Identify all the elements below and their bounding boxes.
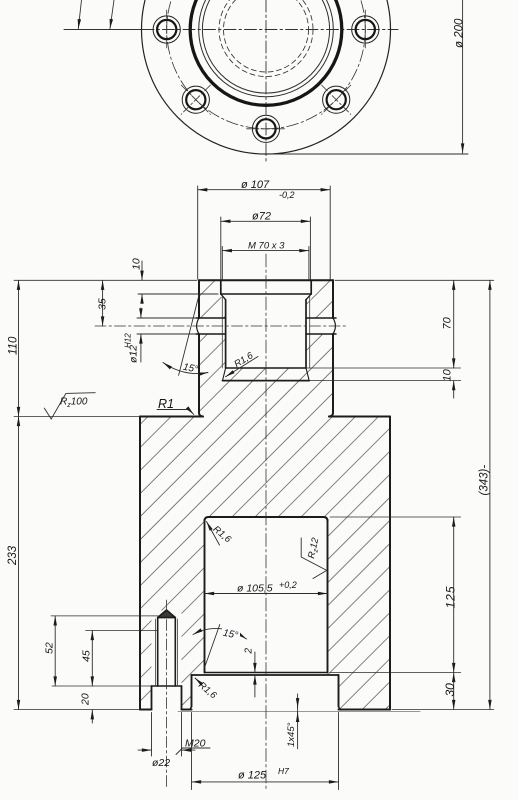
svg-text:(343)-: (343)- [479, 465, 491, 496]
neck outer wall left [198, 280, 200, 318]
bolt hole 90deg [247, 115, 286, 142]
recess d72 wall left [220, 280, 222, 294]
dim d105.5 [205, 580, 328, 595]
extension seat right [330, 672, 461, 674]
circle d107 [199, 0, 334, 97]
recess wall left [191, 675, 193, 707]
svg-text:+0,2: +0,2 [279, 580, 297, 590]
circle d105.5 [202, 0, 329, 93]
chamfer 1x45 left [190, 707, 192, 710]
svg-text:ø 107: ø 107 [241, 179, 270, 191]
bolt hole 135deg [181, 85, 210, 114]
dim 45 [52, 631, 158, 687]
dim 1x45 [286, 694, 298, 749]
M20 thread minor left [157, 618, 159, 687]
svg-text:ø72: ø72 [252, 211, 271, 223]
stud hole d22 wall right [181, 686, 183, 710]
dim 52 [44, 616, 161, 686]
neck top face [199, 279, 333, 281]
bolt circle centerline [167, 0, 366, 129]
svg-text:35: 35 [97, 298, 109, 310]
wire flange bottom tangent extension [262, 153, 468, 155]
dim d125 H7 [192, 713, 339, 790]
runout left [223, 368, 226, 381]
extension floor right [309, 380, 461, 382]
svg-text:ø 105,5: ø 105,5 [237, 583, 273, 595]
hidden circle M70 dashed [224, 0, 309, 72]
bore wall right [327, 520, 329, 673]
svg-text:10: 10 [442, 368, 454, 381]
body top face right [329, 416, 390, 418]
dim d72 [221, 211, 311, 280]
dim d22 [138, 713, 195, 770]
neck outer wall right [332, 280, 334, 318]
bore wall left [204, 520, 206, 673]
body top face left [140, 416, 203, 418]
extension bore top right [330, 516, 461, 518]
flange outer circle d200 [142, 0, 391, 154]
M20 thread major left [154, 619, 156, 686]
chamfer 1x45 right [339, 707, 341, 710]
svg-text:125: 125 [444, 585, 458, 608]
bore circle d125 thick [190, 0, 342, 105]
dim 15deg upper arc [163, 362, 208, 376]
dim d12 H12 [124, 308, 197, 363]
extension top face left [14, 279, 197, 281]
body right edge [389, 417, 391, 710]
stud centerline [166, 600, 168, 789]
bolt hole 0deg [352, 10, 379, 49]
svg-text:10: 10 [131, 258, 143, 270]
svg-text:ø22: ø22 [152, 757, 170, 769]
leader arrow left2 [110, 0, 114, 29]
label Rz12 [301, 536, 327, 578]
hatch body regions [140, 280, 390, 709]
svg-text:52: 52 [44, 642, 56, 654]
label R1.6 bore [207, 522, 234, 546]
dim 110 [8, 280, 20, 416]
bottom face echo line [178, 711, 420, 713]
body left edge [139, 417, 141, 710]
svg-text:45: 45 [81, 650, 93, 662]
M20 hole top [158, 617, 176, 619]
extension thread bottom right [306, 367, 461, 369]
M20 thread major right [177, 619, 179, 686]
bore floor [223, 380, 310, 382]
bore bottom seat [205, 672, 328, 674]
stud hole step [152, 685, 182, 687]
svg-text:M 70 x 3: M 70 x 3 [248, 241, 285, 252]
dim 15deg lower arc [193, 625, 247, 642]
svg-text:ø 200: ø 200 [454, 18, 466, 48]
recess d125 top [192, 674, 339, 676]
recess wall right [338, 675, 340, 707]
svg-text:30: 30 [443, 683, 457, 697]
svg-text:H12: H12 [124, 333, 133, 348]
chamfer left [221, 294, 226, 300]
svg-text:R1: R1 [158, 397, 174, 411]
d12 hole slot right [306, 318, 336, 334]
dim 125 [444, 517, 458, 673]
svg-text:1x45°: 1x45° [286, 722, 297, 747]
wire vertical centerline [265, 0, 267, 163]
svg-text:70: 70 [442, 316, 454, 329]
M20 thread minor right [174, 618, 176, 687]
thread minor wall left [225, 300, 227, 368]
label R1 [157, 397, 194, 415]
extension bottom face left [14, 709, 140, 711]
thread minor wall right [305, 300, 307, 368]
svg-text:Rz100: Rz100 [60, 397, 88, 410]
recess bottom [221, 293, 311, 295]
dimension d200 line [462, 0, 464, 153]
chamfer15 reference line upper [179, 295, 199, 375]
leader arrow left1 [78, 0, 81, 29]
svg-text:H7: H7 [278, 766, 289, 776]
svg-text:2: 2 [244, 648, 255, 655]
thread bottom [226, 367, 306, 369]
extension top face right [335, 279, 494, 281]
dim 35 [97, 280, 109, 326]
stud hole d22 wall left [151, 686, 153, 710]
d12 hole slot left [196, 318, 226, 334]
bore d105.5 top [205, 517, 328, 521]
dim M70x3 [222, 241, 309, 280]
d12 centerline [95, 325, 346, 327]
dim 2 [244, 648, 255, 698]
label R1.6 recess [195, 678, 219, 702]
symbol Rz100 [44, 393, 95, 419]
runout right [306, 368, 309, 381]
M20 drill point [158, 610, 176, 618]
bolt hole 45deg [322, 85, 351, 114]
svg-text:233: 233 [7, 545, 19, 566]
dim 233 [7, 417, 19, 710]
dim 10 top left [131, 258, 219, 303]
recess d72 wall right [310, 280, 312, 294]
dim d107 [198, 179, 331, 279]
dim 70 [442, 280, 454, 368]
wire horizontal centerline [64, 29, 142, 31]
bottom face segments [140, 709, 152, 711]
label R1.6 upper [226, 350, 259, 377]
svg-text:110: 110 [8, 336, 20, 355]
svg-text:20: 20 [80, 693, 92, 706]
dim 10 right [442, 368, 454, 398]
dim 30 [443, 673, 457, 710]
svg-text:-0,2: -0,2 [279, 190, 295, 200]
dim (343) [479, 280, 491, 709]
svg-text:ø 125: ø 125 [238, 770, 267, 782]
chamfer right [306, 294, 311, 300]
part centerline [265, 254, 267, 789]
thread major line right [309, 296, 311, 369]
extension bottom right [392, 709, 494, 711]
svg-text:M20: M20 [185, 738, 206, 750]
hidden circle d72 dashed [219, 0, 313, 77]
label M20 [176, 738, 210, 755]
bolt hole 180deg [153, 10, 180, 49]
thread major line left [221, 296, 223, 369]
dim 20 [80, 693, 93, 723]
extension body top left [14, 416, 140, 418]
chamfer15 reference line lower [204, 625, 220, 669]
